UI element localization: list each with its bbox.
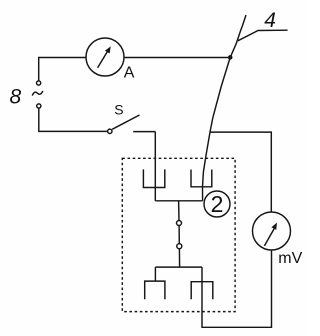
millivoltmeter PV circle xyxy=(253,212,291,250)
ammeter PA circle xyxy=(86,38,124,76)
wire: heater bottom connector xyxy=(155,200,202,202)
svg-text:A: A xyxy=(124,65,135,82)
wire: cold junction connector xyxy=(155,266,202,268)
wire: source top lead to ammeter xyxy=(39,58,86,81)
wire: millivoltmeter return to thermocouple xyxy=(202,250,272,327)
AC source tilde symbol xyxy=(32,91,43,96)
heater left cup electrode xyxy=(143,169,164,187)
thermocouple center link xyxy=(179,201,180,267)
wire: ammeter to node junction xyxy=(124,57,230,59)
switch S blade xyxy=(112,115,139,129)
heater right cup electrode xyxy=(191,170,212,187)
svg-text:mV: mV xyxy=(278,250,302,267)
switch S hinge xyxy=(108,129,112,133)
svg-text:8: 8 xyxy=(10,85,22,108)
wire: left hat stem xyxy=(154,267,156,281)
wire: source bottom lead to switch xyxy=(39,108,108,131)
thermocouple bead node 2 xyxy=(177,244,182,249)
wire: heater left stem (into converter) xyxy=(154,132,156,201)
callout circle 2 xyxy=(204,191,230,217)
junction dot xyxy=(228,55,233,60)
millivoltmeter needle arrowhead xyxy=(271,223,277,230)
thermal converter boundary (dashed box) xyxy=(122,158,235,311)
cold-junction left hat electrode xyxy=(145,281,165,299)
ammeter needle arrowhead xyxy=(105,46,111,53)
terminal X1 (top) xyxy=(37,81,41,85)
wire: node to millivoltmeter top xyxy=(210,132,271,212)
terminal X2 (bottom) xyxy=(37,104,41,108)
svg-text:4: 4 xyxy=(264,9,276,32)
cold-junction right hat electrode xyxy=(191,282,213,300)
millivoltmeter needle xyxy=(264,229,274,246)
wire: switch contact segment xyxy=(133,131,155,133)
svg-text:S: S xyxy=(114,101,123,117)
wire 4: heater feed (curved conductor) xyxy=(203,15,247,201)
ammeter needle xyxy=(98,51,108,67)
leader line for label 4 xyxy=(238,30,288,41)
thermocouple bead node 1 xyxy=(177,221,182,226)
svg-text:2: 2 xyxy=(211,191,224,217)
